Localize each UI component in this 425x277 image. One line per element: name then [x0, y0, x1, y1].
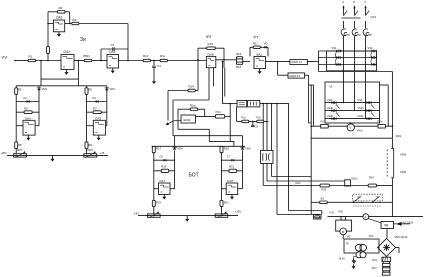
svg-text:VD9-VD12: VD9-VD12: [395, 235, 408, 239]
svg-text:VD5: VD5: [109, 87, 115, 91]
svg-text:+15V: +15V: [235, 210, 242, 214]
svg-text:SA: SA: [320, 197, 324, 201]
svg-text:IP3: IP3: [206, 35, 211, 39]
svg-text:OA8: OA8: [227, 179, 233, 183]
svg-text:-15V: -15V: [0, 151, 6, 155]
svg-text:VB: VB: [384, 223, 388, 227]
svg-text:OA7: OA7: [159, 179, 165, 183]
svg-text:OA3: OA3: [109, 50, 116, 54]
svg-text:VD: VD: [264, 41, 268, 45]
svg-text:QF3: QF3: [372, 266, 378, 270]
svg-text:PG3: PG3: [216, 110, 222, 114]
svg-text:C5: C5: [159, 154, 163, 158]
svg-text:VD4: VD4: [177, 146, 183, 150]
svg-text:OA5: OA5: [95, 116, 101, 120]
svg-text:FU3: FU3: [321, 120, 326, 124]
svg-text:OA4: OA4: [25, 116, 31, 120]
svg-text:Зи: Зи: [80, 37, 86, 43]
svg-text:R17: R17: [156, 147, 162, 151]
svg-text:FU2: FU2: [330, 212, 335, 215]
svg-text:R14: R14: [189, 85, 195, 89]
svg-text:VS1: VS1: [332, 46, 337, 50]
svg-text:RP1: RP1: [17, 148, 23, 152]
svg-text:R22: R22: [224, 201, 229, 205]
svg-text:БОТ: БОТ: [189, 173, 199, 179]
svg-text:VS6b: VS6b: [358, 107, 365, 110]
svg-text:R1: R1: [29, 54, 33, 58]
svg-text:A: A: [365, 215, 367, 219]
svg-text:FU4: FU4: [378, 120, 383, 124]
svg-text:OA6: OA6: [208, 52, 214, 56]
svg-text:R15: R15: [236, 52, 242, 56]
svg-text:C7: C7: [227, 154, 231, 158]
svg-text:R5: R5: [89, 88, 93, 92]
svg-text:R25: R25: [321, 188, 326, 192]
svg-text:R2: R2: [59, 6, 63, 10]
svg-text:AC 220V: AC 220V: [403, 220, 414, 224]
svg-text:A: A: [342, 0, 344, 4]
svg-text:R1f: R1f: [253, 41, 258, 45]
svg-text:R11: R11: [160, 54, 165, 58]
svg-text:R1i: R1i: [257, 116, 262, 120]
svg-text:КМ2: КМ2: [401, 170, 407, 174]
svg-text:R24: R24: [369, 175, 374, 179]
svg-text:TA: TA: [346, 242, 349, 245]
svg-text:VS1b: VS1b: [327, 99, 334, 102]
svg-text:R7: R7: [93, 106, 97, 110]
svg-text:QF1: QF1: [371, 15, 377, 19]
svg-text:OA2: OA2: [64, 50, 71, 54]
svg-text:C2: C2: [23, 96, 27, 100]
svg-text:36 kV: 36 kV: [339, 258, 346, 261]
svg-text:VD4: VD4: [42, 87, 48, 91]
svg-text:R16: R16: [236, 65, 242, 69]
svg-text:КМ1: КМ1: [396, 134, 402, 138]
svg-text:R13: R13: [208, 42, 214, 46]
svg-text:PV1: PV1: [358, 129, 364, 133]
svg-text:PT: PT: [254, 35, 260, 40]
svg-text:ЖЗЖ: ЖЗЖ: [183, 118, 191, 122]
svg-text:+15: +15: [100, 151, 105, 155]
svg-text:C: C: [364, 0, 366, 4]
svg-text:R8: R8: [18, 143, 22, 147]
svg-text:R9: R9: [89, 143, 93, 147]
svg-text:R19: R19: [156, 201, 161, 205]
svg-text:КОМУ-16: КОМУ-16: [291, 61, 302, 64]
svg-text:VS4b: VS4b: [327, 107, 334, 110]
svg-text:RP2: RP2: [88, 148, 94, 152]
svg-text:Vref: Vref: [2, 56, 8, 60]
svg-text:R20: R20: [224, 147, 230, 151]
svg-text:BW1: BW1: [84, 54, 91, 58]
svg-text:R6: R6: [24, 106, 28, 110]
svg-text:R5: R5: [18, 88, 22, 92]
svg-text:VS2b: VS2b: [358, 115, 365, 118]
svg-text:R10: R10: [143, 54, 149, 58]
svg-text:C4: C4: [157, 64, 161, 68]
svg-text:RV1: RV1: [373, 259, 378, 262]
svg-text:R1w: R1w: [190, 103, 197, 107]
svg-text:BA1: BA1: [257, 52, 263, 56]
svg-text:C3: C3: [92, 96, 96, 100]
svg-text:C9: C9: [255, 125, 259, 129]
svg-text:R42: R42: [339, 210, 344, 213]
svg-text:V: V: [349, 126, 351, 130]
svg-text:C1: C1: [111, 43, 115, 47]
svg-text:R18: R18: [161, 165, 167, 169]
svg-text:VD6: VD6: [245, 146, 251, 150]
svg-text:ТА1: ТА1: [369, 234, 375, 238]
svg-text:VS4: VS4: [368, 46, 373, 50]
svg-text:OA1: OA1: [56, 16, 63, 20]
svg-text:VD13: VD13: [351, 178, 358, 181]
svg-text:КМ4: КМ4: [401, 153, 407, 157]
svg-text:КОМУ-16: КОМУ-16: [289, 75, 300, 78]
svg-text:R4: R4: [73, 18, 77, 22]
svg-text:B: B: [353, 0, 355, 4]
svg-text:R21: R21: [229, 165, 235, 169]
svg-text:КС1: КС1: [296, 181, 302, 185]
svg-text:R1i: R1i: [242, 116, 247, 120]
svg-text:VS8: VS8: [358, 99, 363, 102]
svg-text:VS3b: VS3b: [327, 115, 334, 118]
svg-text:M1: M1: [347, 236, 351, 239]
svg-text:-15V: -15V: [133, 211, 139, 215]
